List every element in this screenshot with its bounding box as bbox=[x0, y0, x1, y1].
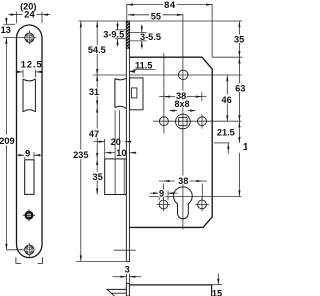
svg-text:9: 9 bbox=[159, 188, 164, 198]
bottom screw hole (knurled, phillips) bbox=[7, 243, 34, 257]
dimension 9 (cylinder hole dia) bbox=[150, 191, 177, 201]
bottom screw centerline across side plate bbox=[114, 249, 136, 251]
svg-text:47: 47 bbox=[89, 129, 99, 139]
dimension 12.5 bbox=[15, 70, 43, 78]
svg-text:63: 63 bbox=[235, 84, 245, 94]
dimension 21.5 bbox=[238, 121, 240, 143]
svg-text:13: 13 bbox=[1, 25, 11, 35]
latch cutout with latchbolt curves bbox=[23, 79, 35, 112]
square-corner alternative mark bottom-left bbox=[16, 257, 21, 263]
svg-text:35: 35 bbox=[234, 35, 244, 45]
dimension 9 (deadbolt slot width) bbox=[16, 152, 42, 159]
dimension 46 bbox=[226, 75, 228, 121]
stray arrow below 142.9 line bbox=[227, 143, 229, 154]
faceplate side strip (hatched) bbox=[126, 21, 129, 262]
lower-right cylinder fixing hole bbox=[198, 200, 207, 209]
latch bolt head (protruding) bbox=[115, 78, 127, 108]
middle fixing hole (dark) bbox=[23, 209, 35, 221]
svg-text:3-5.5: 3-5.5 bbox=[140, 32, 161, 42]
spindle hub with 8x8 square bbox=[176, 114, 191, 129]
lower right dimension line to cylinder centerline bbox=[238, 153, 240, 197]
svg-text:35: 35 bbox=[92, 172, 102, 182]
dimension 24 bbox=[8, 12, 50, 23]
faceplate strip (bottom view, hatched) bbox=[126, 283, 129, 296]
case top reference to right bbox=[212, 56, 242, 58]
lower-left cylinder fixing hole bbox=[159, 200, 168, 209]
reference line at 142.9 bbox=[214, 142, 230, 144]
latch bolt plan view bbox=[107, 289, 126, 296]
svg-text:10: 10 bbox=[116, 148, 126, 158]
right fixing hole (spindle row) bbox=[198, 117, 207, 126]
left fixing hole (spindle row) bbox=[159, 117, 168, 126]
svg-text:20: 20 bbox=[111, 137, 121, 147]
faceplate bottom reference line bbox=[76, 260, 126, 262]
dimension 63 bbox=[238, 57, 240, 121]
latch follower step bbox=[131, 88, 137, 98]
svg-text:38: 38 bbox=[178, 176, 188, 186]
svg-text:31: 31 bbox=[89, 87, 99, 97]
latch bolt tail in case bbox=[130, 78, 143, 110]
faceplate outline (rounded-end stadium) bbox=[17, 25, 43, 258]
dimension 35 (right top) bbox=[238, 21, 240, 57]
svg-text:55: 55 bbox=[151, 11, 161, 21]
svg-text:3-9.5: 3-9.5 bbox=[103, 30, 124, 40]
reference line through upper fixing hole bbox=[93, 74, 242, 76]
dimension 38 (spindle row holes) bbox=[159, 92, 206, 101]
svg-text:16: 16 bbox=[243, 142, 247, 153]
top reference line (faceplate top level) bbox=[78, 20, 242, 22]
svg-text:24: 24 bbox=[24, 8, 35, 19]
dimension 3-9.5 (countersink) bbox=[115, 22, 126, 47]
svg-text:46: 46 bbox=[221, 95, 231, 105]
deadbolt slot bbox=[25, 160, 34, 195]
upper fixing hole bbox=[178, 70, 188, 80]
case outline bbox=[130, 57, 213, 227]
deadbolt (side view) bbox=[105, 159, 127, 195]
dimension 20 bbox=[94, 141, 105, 143]
svg-text:3: 3 bbox=[125, 264, 130, 274]
dimension 38 (cylinder row holes) bbox=[159, 181, 207, 200]
svg-text:84: 84 bbox=[164, 0, 176, 10]
svg-text:12.5: 12.5 bbox=[21, 60, 43, 70]
holes row centerline bbox=[153, 120, 241, 122]
square-corner alternative mark bottom-right bbox=[38, 257, 43, 263]
dimension 10 bbox=[105, 152, 115, 154]
dimension 15 (case depth) bbox=[212, 284, 222, 286]
dimension 8x8 (spindle) bbox=[176, 100, 189, 107]
dimension 13 bbox=[4, 17, 16, 24]
dimension 55 bbox=[128, 14, 183, 16]
upper-left hole vertical centerline bbox=[163, 53, 165, 134]
svg-text:21.5: 21.5 bbox=[217, 128, 235, 138]
svg-text:9: 9 bbox=[25, 149, 30, 159]
extension lines above deadbolt bbox=[105, 110, 120, 159]
svg-text:209: 209 bbox=[0, 136, 15, 146]
dimension 209 (vertical line with text break) bbox=[5, 38, 7, 250]
svg-text:54.5: 54.5 bbox=[88, 45, 106, 55]
svg-text:235: 235 bbox=[73, 150, 88, 160]
dimension 235 (vertical line with text break) bbox=[80, 21, 82, 261]
case outline (bottom view) bbox=[129, 285, 211, 296]
cylinder centerline bbox=[149, 195, 241, 197]
svg-text:8x8: 8x8 bbox=[174, 99, 189, 109]
chain dimension line 54.5 / 31 / 47 / 35 bbox=[96, 21, 98, 195]
spindle vertical centerline bbox=[182, 14, 184, 230]
svg-text:11.5: 11.5 bbox=[135, 60, 152, 70]
euro profile cylinder cutout bbox=[174, 187, 193, 219]
svg-text:15: 15 bbox=[212, 289, 222, 296]
dimension 84 bbox=[127, 4, 212, 57]
top screw hole (knurled, phillips) bbox=[3, 31, 36, 45]
dimension 3-5.5 (drill holes) bbox=[130, 25, 147, 49]
